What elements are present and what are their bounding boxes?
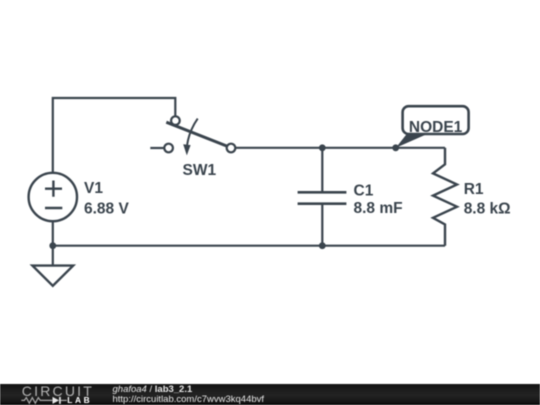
svg-text:8.8 mF: 8.8 mF: [354, 200, 403, 217]
svg-text:6.88 V: 6.88 V: [84, 200, 129, 217]
svg-text:NODE1: NODE1: [409, 119, 463, 136]
svg-text:8.8 kΩ: 8.8 kΩ: [464, 201, 511, 218]
svg-text:SW1: SW1: [183, 162, 217, 179]
svg-text:R1: R1: [464, 181, 484, 198]
svg-text:LAB: LAB: [67, 395, 92, 405]
svg-text:C1: C1: [354, 183, 374, 200]
svg-text:V1: V1: [84, 180, 103, 197]
